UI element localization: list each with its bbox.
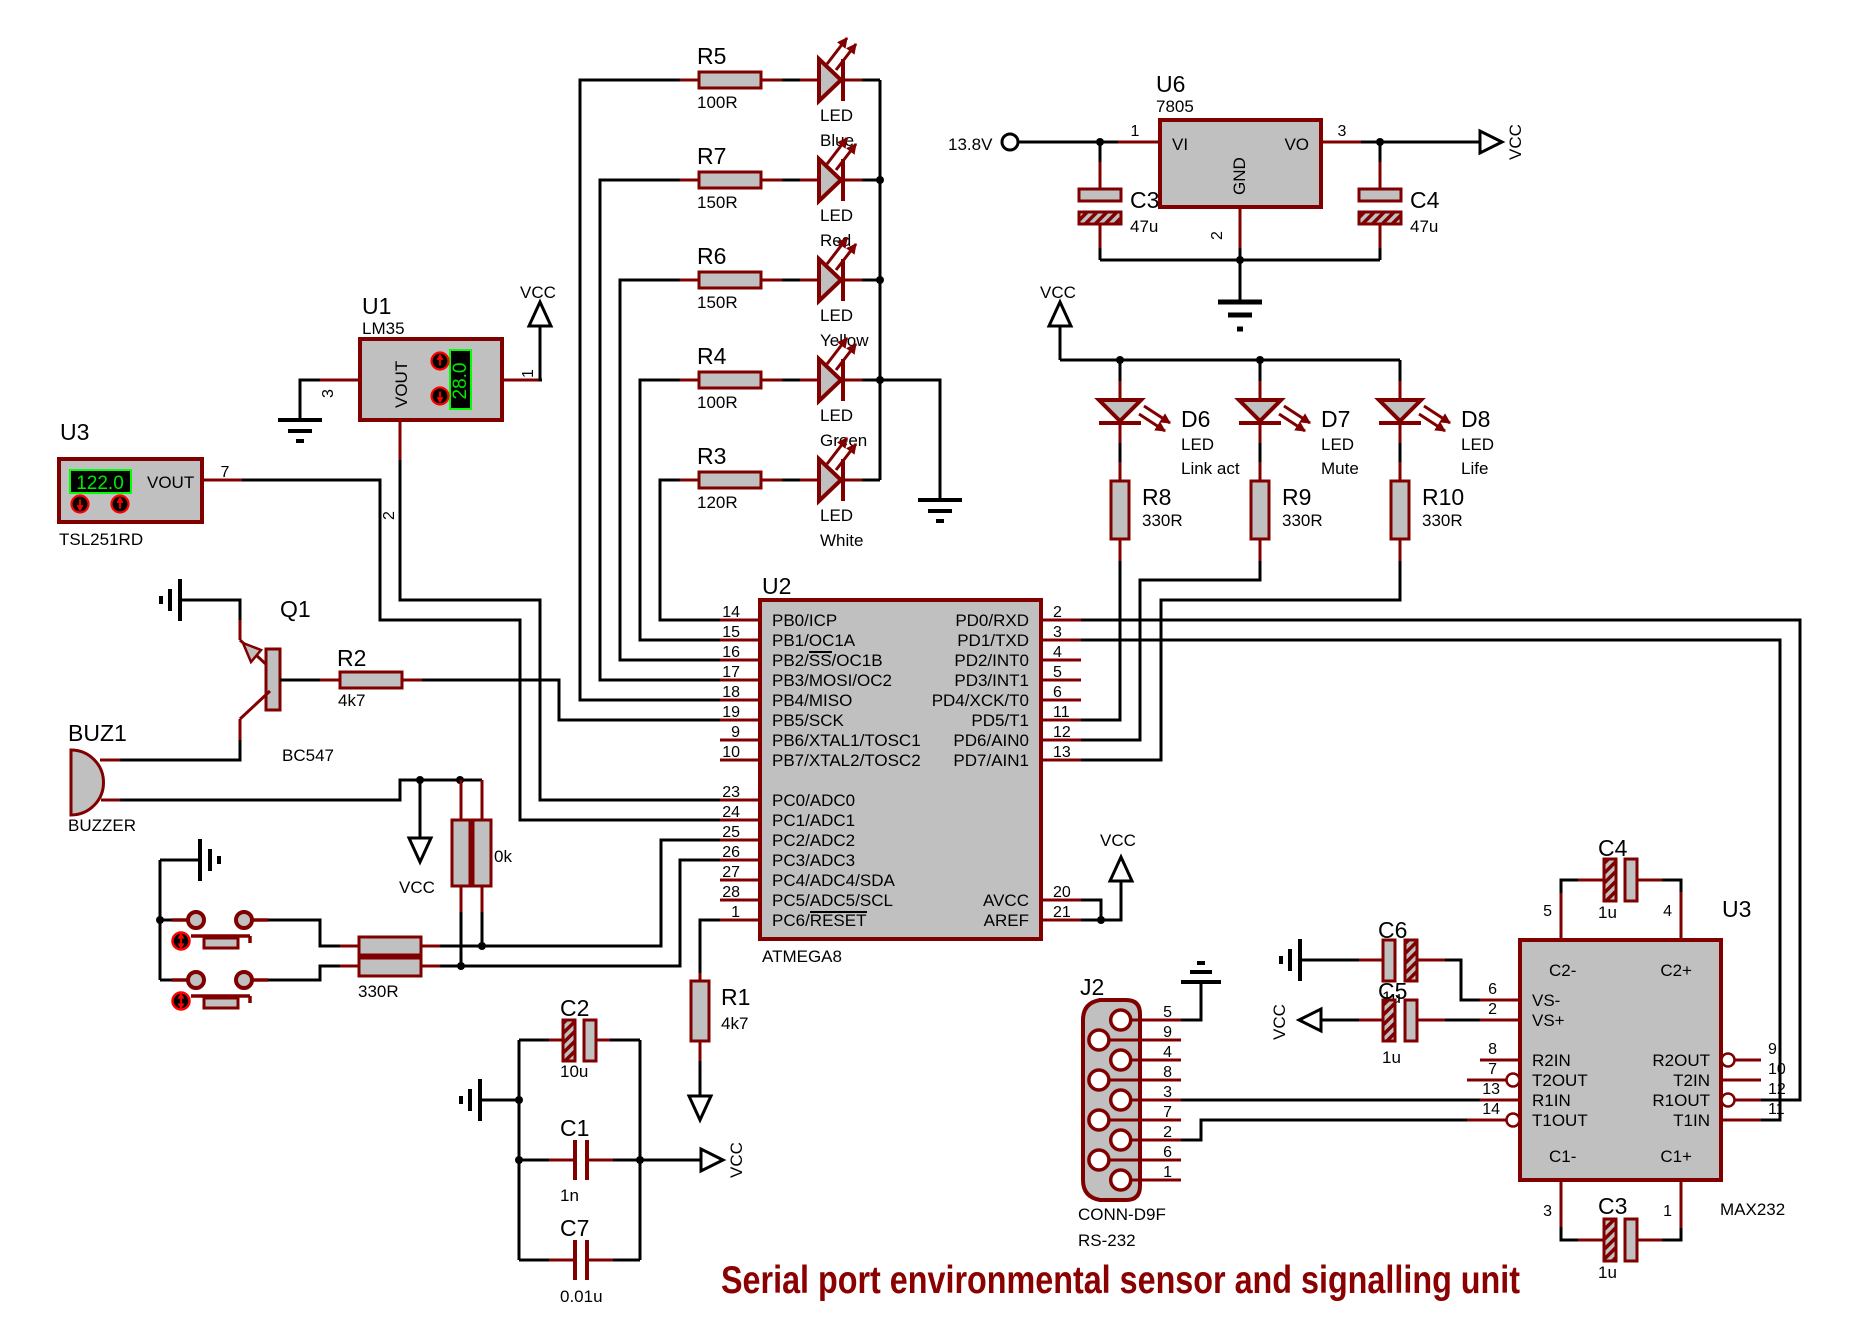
svg-text:13: 13 (1482, 1081, 1500, 1098)
svg-text:2: 2 (1163, 1124, 1172, 1141)
resistor R330-2 330R (340, 958, 440, 1001)
LED D6 (1099, 360, 1240, 478)
wire 13.8V to VI (1018, 141, 1118, 144)
svg-text:PC6/RESET: PC6/RESET (772, 911, 866, 930)
svg-text:C5: C5 (1378, 978, 1407, 1004)
svg-text:18: 18 (722, 684, 740, 701)
LED Green D-R4 (782, 338, 880, 450)
svg-text:9: 9 (731, 724, 740, 741)
wire PD1 to T1IN (1081, 640, 1780, 1120)
svg-text:C1-: C1- (1549, 1147, 1576, 1166)
junction U6 input (1096, 138, 1104, 146)
svg-text:VCC: VCC (1040, 283, 1076, 302)
svg-text:3: 3 (1163, 1084, 1172, 1101)
svg-text:47u: 47u (1130, 217, 1158, 236)
wire R6 to U2 (620, 280, 720, 660)
svg-text:330R: 330R (1142, 511, 1183, 530)
svg-text:16: 16 (722, 644, 740, 661)
power VCC left arrow (1270, 1004, 1321, 1040)
svg-text:12: 12 (1768, 1081, 1786, 1098)
svg-text:4: 4 (1053, 644, 1062, 661)
svg-text:3: 3 (1053, 624, 1062, 641)
svg-text:7: 7 (1488, 1061, 1497, 1078)
resistor RV2 10k (473, 780, 512, 946)
svg-text:25: 25 (722, 824, 740, 841)
wire cap rail right (639, 1040, 642, 1260)
svg-text:PD7/AIN1: PD7/AIN1 (953, 751, 1029, 770)
svg-text:R7: R7 (697, 143, 726, 169)
svg-text:330R: 330R (1282, 511, 1323, 530)
svg-text:4: 4 (1163, 1044, 1172, 1061)
svg-text:19: 19 (722, 704, 740, 721)
svg-text:1u: 1u (1598, 1263, 1617, 1282)
svg-text:PB2/SS/OC1B: PB2/SS/OC1B (772, 651, 883, 670)
junction U6 output (1376, 138, 1384, 146)
junction buzzer VCC 2 (456, 776, 464, 784)
wire buzzer to Q1 collector (120, 740, 240, 760)
capacitor C2 10u (519, 995, 640, 1081)
svg-text:1: 1 (731, 904, 740, 921)
svg-text:2: 2 (1209, 231, 1226, 240)
svg-text:R1OUT: R1OUT (1652, 1091, 1710, 1110)
svg-text:J2: J2 (1080, 974, 1104, 1000)
sensor U3 TSL251RD (59, 419, 242, 549)
svg-text:VCC: VCC (520, 283, 556, 302)
svg-text:C2: C2 (560, 995, 589, 1021)
junction R330-2 10k (457, 962, 465, 970)
svg-text:LED: LED (1321, 435, 1354, 454)
wire R3 to U2 (660, 480, 720, 620)
svg-text:Q1: Q1 (280, 596, 311, 622)
svg-text:PB4/MISO: PB4/MISO (772, 691, 852, 710)
svg-text:122.0: 122.0 (76, 473, 124, 494)
junction C1 right (636, 1156, 644, 1164)
wire SW1 to R330-1 (268, 920, 340, 946)
power VCC output arrow (1480, 124, 1525, 160)
LED D8 (1379, 360, 1494, 478)
svg-text:C7: C7 (560, 1215, 589, 1241)
svg-text:47u: 47u (1410, 217, 1438, 236)
svg-text:10u: 10u (560, 1062, 588, 1081)
svg-text:C2-: C2- (1549, 961, 1576, 980)
svg-text:Mute: Mute (1321, 459, 1359, 478)
svg-text:PC3/ADC3: PC3/ADC3 (772, 851, 855, 870)
capacitor C3 47u (1079, 142, 1159, 260)
svg-text:U3: U3 (60, 419, 89, 445)
svg-text:2: 2 (381, 511, 398, 520)
svg-text:3: 3 (1543, 1203, 1552, 1220)
svg-text:120R: 120R (697, 493, 738, 512)
svg-text:28.0: 28.0 (450, 363, 471, 400)
svg-text:VCC: VCC (1506, 124, 1525, 160)
svg-text:1: 1 (1131, 123, 1140, 140)
svg-text:6: 6 (1163, 1144, 1172, 1161)
svg-text:R3: R3 (697, 443, 726, 469)
wire SW2 to R330-2 (268, 966, 340, 980)
switch SW1 (160, 912, 268, 950)
svg-text:2: 2 (1488, 1001, 1497, 1018)
svg-text:14: 14 (722, 604, 740, 621)
svg-text:C2+: C2+ (1660, 961, 1692, 980)
svg-text:12: 12 (1053, 724, 1071, 741)
ground switches (160, 839, 219, 881)
svg-text:2: 2 (1053, 604, 1062, 621)
svg-text:PD4/XCK/T0: PD4/XCK/T0 (932, 691, 1029, 710)
svg-text:PB6/XTAL1/TOSC1: PB6/XTAL1/TOSC1 (772, 731, 921, 750)
svg-text:MAX232: MAX232 (1720, 1200, 1785, 1219)
connector J2 CONN-D9F (1078, 974, 1181, 1250)
resistor R9 330R (1251, 462, 1323, 561)
svg-text:3: 3 (1338, 123, 1347, 140)
svg-text:PD6/AIN0: PD6/AIN0 (953, 731, 1029, 750)
capacitor C4 47u (1359, 142, 1440, 260)
svg-text:R1: R1 (721, 984, 750, 1010)
svg-text:U2: U2 (762, 573, 791, 599)
svg-text:9: 9 (1768, 1041, 1777, 1058)
switch SW2 (160, 972, 268, 1010)
svg-text:27: 27 (722, 864, 740, 881)
svg-text:LED: LED (1181, 435, 1214, 454)
junction cap ground (515, 1096, 523, 1104)
svg-text:PD1/TXD: PD1/TXD (957, 631, 1029, 650)
svg-text:1: 1 (520, 369, 537, 378)
svg-text:PD0/RXD: PD0/RXD (955, 611, 1029, 630)
power VCC right arrow caps (701, 1142, 746, 1178)
wire R7 to U2 (600, 180, 720, 680)
svg-text:U3: U3 (1722, 896, 1751, 922)
svg-text:R2OUT: R2OUT (1652, 1051, 1710, 1070)
wire PD0 to R1OUT (1081, 620, 1800, 1100)
svg-text:White: White (820, 531, 863, 550)
svg-text:VCC: VCC (727, 1142, 746, 1178)
svg-text:T2OUT: T2OUT (1532, 1071, 1588, 1090)
svg-text:AVCC: AVCC (983, 891, 1029, 910)
svg-text:ATMEGA8: ATMEGA8 (762, 947, 842, 966)
resistor R5 (680, 43, 782, 112)
svg-text:4k7: 4k7 (338, 691, 365, 710)
svg-text:330R: 330R (1422, 511, 1463, 530)
wire U1 VOUT to PC0 (400, 460, 720, 800)
svg-text:Link act: Link act (1181, 459, 1240, 478)
svg-text:LM35: LM35 (362, 319, 405, 338)
svg-text:C4: C4 (1598, 835, 1628, 861)
svg-text:6: 6 (1053, 684, 1062, 701)
wire U1 pin3 to ground (300, 380, 320, 420)
svg-text:13: 13 (1053, 744, 1071, 761)
power VCC arrow U1 (520, 283, 556, 326)
power VCC down arrow R1 (689, 1061, 711, 1120)
junction AREF (1097, 916, 1105, 924)
wire U3 VOUT to PC1 (242, 480, 720, 820)
ground Q1 emitter (161, 579, 180, 621)
svg-text:150R: 150R (697, 293, 738, 312)
svg-text:26: 26 (722, 844, 740, 861)
power VCC down arrow (399, 780, 435, 897)
svg-text:11: 11 (1768, 1101, 1785, 1118)
svg-text:3: 3 (320, 389, 337, 398)
svg-text:VOUT: VOUT (392, 361, 411, 408)
power VCC arrow for LEDs (1040, 283, 1076, 360)
svg-text:R2IN: R2IN (1532, 1051, 1571, 1070)
wire cap rail left (518, 1040, 521, 1260)
wire ground to Q1 (180, 600, 240, 620)
svg-text:10: 10 (722, 744, 740, 761)
svg-text:D7: D7 (1321, 406, 1350, 432)
svg-text:C1: C1 (560, 1115, 589, 1141)
resistor R1 4k7 (691, 973, 750, 1061)
resistor R3 (680, 443, 782, 512)
junction D7 bus (1256, 356, 1264, 364)
wire U6 ground bus (1100, 248, 1380, 302)
svg-text:9: 9 (1163, 1024, 1172, 1041)
svg-text:1u: 1u (1382, 1048, 1401, 1067)
transistor Q1 BC547 (240, 596, 334, 765)
svg-text:T1IN: T1IN (1673, 1111, 1710, 1130)
svg-text:R2: R2 (337, 645, 366, 671)
capacitor C6 1u (1300, 917, 1445, 1007)
svg-text:AREF: AREF (984, 911, 1029, 930)
svg-text:VOUT: VOUT (147, 473, 194, 492)
resistor R6 (680, 243, 782, 312)
svg-text:VS+: VS+ (1532, 1011, 1565, 1030)
svg-text:C3: C3 (1130, 187, 1159, 213)
svg-text:PC0/ADC0: PC0/ADC0 (772, 791, 855, 810)
capacitor C4 1u (charge pump) (1561, 835, 1681, 940)
svg-text:100R: 100R (697, 393, 738, 412)
wire switch rail (159, 860, 162, 980)
svg-text:BUZZER: BUZZER (68, 816, 136, 835)
LED White D-R3 (782, 438, 880, 550)
svg-text:VO: VO (1284, 135, 1309, 154)
wire R5 to U2 (580, 80, 720, 700)
svg-text:PB5/SCK: PB5/SCK (772, 711, 844, 730)
svg-text:VS-: VS- (1532, 991, 1560, 1010)
svg-text:D8: D8 (1461, 406, 1490, 432)
svg-text:17: 17 (722, 664, 740, 681)
svg-text:PD3/INT1: PD3/INT1 (954, 671, 1029, 690)
svg-text:28: 28 (722, 884, 740, 901)
svg-text:C4: C4 (1410, 187, 1440, 213)
svg-text:PC4/ADC4/SDA: PC4/ADC4/SDA (772, 871, 895, 890)
svg-text:PD2/INT0: PD2/INT0 (954, 651, 1029, 670)
junction D6 bus (1116, 356, 1124, 364)
wire R10 to PD7 (1080, 561, 1400, 760)
svg-text:10: 10 (1768, 1061, 1786, 1078)
ground cap block (461, 1079, 519, 1121)
svg-text:LED: LED (820, 306, 853, 325)
svg-text:1: 1 (1663, 1203, 1672, 1220)
svg-text:R6: R6 (697, 243, 726, 269)
svg-text:6: 6 (1488, 981, 1497, 998)
wire C6 to VS- (1445, 960, 1480, 1000)
svg-text:VI: VI (1172, 135, 1188, 154)
wire R9 to PD6 (1080, 561, 1260, 740)
svg-text:5: 5 (1163, 1004, 1172, 1021)
svg-text:8: 8 (1488, 1041, 1497, 1058)
svg-text:Life: Life (1461, 459, 1488, 478)
svg-text:PC5/ADC5/SCL: PC5/ADC5/SCL (772, 891, 893, 910)
svg-text:7: 7 (1163, 1104, 1172, 1121)
svg-text:7805: 7805 (1156, 97, 1194, 116)
terminal 13.8V input (948, 134, 1018, 154)
ground J2 (1181, 963, 1221, 982)
junction buzzer VCC 1 (416, 776, 424, 784)
svg-text:23: 23 (722, 784, 740, 801)
capacitor C7 0.01u (519, 1215, 640, 1306)
svg-text:LED: LED (1461, 435, 1494, 454)
svg-text:5: 5 (1053, 664, 1062, 681)
wire AVCC AREF to VCC (1081, 881, 1121, 920)
svg-text:PD5/T1: PD5/T1 (971, 711, 1029, 730)
svg-text:GND: GND (1230, 157, 1249, 195)
ground LED bus (918, 500, 962, 521)
svg-text:BC547: BC547 (282, 746, 334, 765)
ground C6 (1281, 939, 1300, 981)
svg-text:C3: C3 (1598, 1193, 1627, 1219)
svg-text:VCC: VCC (1100, 831, 1136, 850)
junction LED bus (876, 176, 884, 384)
svg-text:R1IN: R1IN (1532, 1091, 1571, 1110)
LED D7 (1239, 360, 1359, 478)
svg-text:1u: 1u (1598, 903, 1617, 922)
wire R8 to PD5 (1080, 561, 1120, 720)
svg-text:330R: 330R (358, 982, 399, 1001)
svg-text:LED: LED (820, 206, 853, 225)
svg-text:R8: R8 (1142, 484, 1171, 510)
resistor R4 (680, 343, 782, 412)
wire buzzer to VCC rail (120, 780, 482, 800)
wire PC6 to R1 (700, 920, 720, 973)
wire R2 to PB5 (422, 680, 720, 720)
svg-text:21: 21 (1053, 904, 1071, 921)
wire C1 to VCC (640, 1159, 701, 1162)
svg-text:LED: LED (820, 506, 853, 525)
svg-text:PB7/XTAL2/TOSC2: PB7/XTAL2/TOSC2 (772, 751, 921, 770)
svg-text:5: 5 (1543, 903, 1552, 920)
power VCC arrow AVCC (1100, 831, 1136, 881)
capacitor C3 1u (charge pump) (1561, 1180, 1681, 1282)
wire R330-2 to PC3 (440, 860, 720, 966)
svg-text:C1+: C1+ (1660, 1147, 1692, 1166)
LED Red D-R7 (782, 138, 880, 250)
svg-text:PB0/ICP: PB0/ICP (772, 611, 837, 630)
svg-text:0.01u: 0.01u (560, 1287, 603, 1306)
svg-text:VCC: VCC (399, 878, 435, 897)
LED Yellow D-R6 (782, 238, 880, 350)
title text (721, 1259, 1520, 1302)
svg-text:C6: C6 (1378, 917, 1407, 943)
junction C1 left (515, 1156, 523, 1164)
svg-text:7: 7 (221, 464, 230, 481)
svg-text:PB1/OC1A: PB1/OC1A (772, 631, 856, 650)
svg-text:100R: 100R (697, 93, 738, 112)
svg-text:R4: R4 (697, 343, 727, 369)
svg-text:D6: D6 (1181, 406, 1210, 432)
wire U1 pin1 to VCC (540, 326, 542, 380)
svg-text:R5: R5 (697, 43, 726, 69)
svg-text:4: 4 (1663, 903, 1672, 920)
svg-text:0k: 0k (494, 847, 512, 866)
sensor U1 LM35 (320, 293, 542, 520)
regulator U6 7805 (1118, 71, 1361, 248)
svg-text:4k7: 4k7 (721, 1014, 748, 1033)
svg-text:15: 15 (722, 624, 740, 641)
svg-text:RS-232: RS-232 (1078, 1231, 1136, 1250)
wire R330-1 to PC2 (440, 840, 720, 946)
svg-text:20: 20 (1053, 884, 1071, 901)
svg-text:24: 24 (722, 804, 740, 821)
svg-text:8: 8 (1163, 1064, 1172, 1081)
wire Q1 base to R2 (280, 679, 320, 682)
svg-text:TSL251RD: TSL251RD (59, 530, 143, 549)
wire VO to VCC (1361, 141, 1481, 144)
resistor R7 (680, 143, 782, 212)
svg-text:T2IN: T2IN (1673, 1071, 1710, 1090)
junction R330-1 10k (478, 942, 486, 950)
svg-text:BUZ1: BUZ1 (68, 720, 127, 746)
junction U6 ground (1236, 256, 1244, 264)
wire J2 pin2 to T1OUT (1181, 1120, 1467, 1140)
resistor R10 330R (1391, 462, 1464, 561)
ground U6 (1218, 302, 1262, 329)
wire LED cathode bus (880, 80, 940, 500)
svg-text:1n: 1n (560, 1186, 579, 1205)
svg-text:14: 14 (1482, 1101, 1500, 1118)
svg-text:R10: R10 (1422, 484, 1464, 510)
resistor RV1 10k (452, 780, 470, 966)
junction switch rail (156, 916, 164, 924)
mcu U2 ATMEGA8 (720, 573, 1081, 966)
svg-text:11: 11 (1053, 704, 1070, 721)
svg-text:Serial port environmental sens: Serial port environmental sensor and sig… (721, 1259, 1520, 1302)
svg-text:1: 1 (1163, 1164, 1172, 1181)
wire J2 pin5 to ground (1181, 982, 1201, 1020)
svg-text:PC2/ADC2: PC2/ADC2 (772, 831, 855, 850)
svg-text:R9: R9 (1282, 484, 1311, 510)
ground U1 (278, 420, 322, 441)
wire J2 pin3 to R1IN (1181, 1099, 1480, 1102)
capacitor C1 1n (519, 1115, 640, 1205)
svg-text:13.8V: 13.8V (948, 135, 993, 154)
resistor R8 330R (1111, 462, 1183, 561)
buzzer BUZ1 (68, 720, 136, 835)
svg-text:VCC: VCC (1270, 1004, 1289, 1040)
wire R4 to U2 (640, 380, 720, 640)
ic U3 MAX232 (1467, 880, 1786, 1240)
svg-text:T1OUT: T1OUT (1532, 1111, 1588, 1130)
svg-text:LED: LED (820, 106, 853, 125)
svg-text:LED: LED (820, 406, 853, 425)
svg-text:U1: U1 (362, 293, 391, 319)
resistor R2 4k7 (320, 645, 422, 710)
svg-text:PC1/ADC1: PC1/ADC1 (772, 811, 855, 830)
svg-text:150R: 150R (697, 193, 738, 212)
capacitor C5 1u (1321, 978, 1480, 1067)
svg-text:U6: U6 (1156, 71, 1185, 97)
LED Blue D-R5 (782, 38, 880, 150)
resistor R330-1 330R (340, 937, 440, 955)
svg-text:PB3/MOSI/OC2: PB3/MOSI/OC2 (772, 671, 892, 690)
svg-text:CONN-D9F: CONN-D9F (1078, 1205, 1166, 1224)
wire VCC LED bus (1060, 359, 1400, 362)
